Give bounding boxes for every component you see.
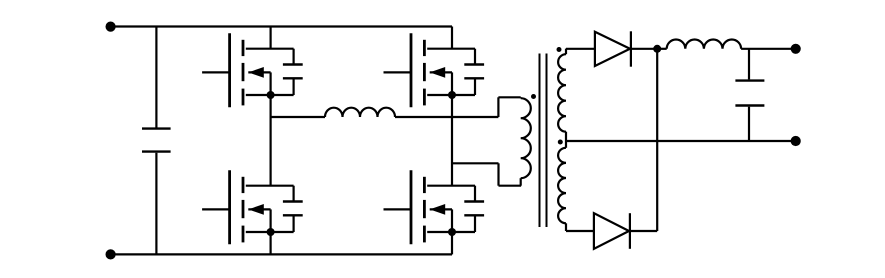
output terminal (+) [791, 44, 801, 54]
polarity dot (primary) [531, 94, 536, 99]
diode D1 (top rectifier) [595, 31, 631, 66]
capacitor C6 (output filter) [735, 49, 764, 141]
n-channel MOSFET Q2 (high-side right) [384, 33, 476, 107]
n-channel MOSFET Q1 (high-side left) [202, 33, 294, 107]
wire: L1 to transformer primary top [395, 116, 498, 118]
wire: L2 to output terminal [741, 48, 796, 50]
polarity dot (secondary bottom half) [558, 140, 563, 145]
wire: left leg midpoint column (Q1 source to Q3 drain) [270, 95, 272, 186]
wire: secondary bottom lead to D2 [566, 230, 594, 232]
wire: right bridge midpoint to primary bottom [452, 162, 499, 164]
wire: drain riser of n-channel MOSFET Q4 (low-side right) [451, 232, 453, 254]
node A: left bridge midpoint to resonant inductor [271, 116, 325, 118]
n-channel MOSFET Q4 (low-side right) [384, 170, 476, 244]
transformer T1 primary winding [521, 97, 531, 185]
output terminal (-) [791, 136, 801, 146]
wire: primary bottom lead [499, 163, 522, 185]
capacitor C2 (across n-channel MOSFET Q1 (high-side left)) [283, 49, 303, 95]
wire: bottom input rail [111, 253, 452, 255]
capacitor C3 (across n-channel MOSFET Q2 (high-side right)) [464, 49, 484, 95]
wire: D2 cathode to riser [630, 230, 657, 232]
input terminal (+) top-left [106, 22, 116, 32]
wire: D1 cathode to output node [631, 48, 657, 50]
wire: right leg midpoint column (Q2 source to Q4 drain) [451, 95, 453, 186]
node B: rectified output junction [653, 45, 661, 53]
inductor L1 (resonant) [325, 108, 395, 117]
capacitor C5 (across n-channel MOSFET Q4 (low-side right)) [464, 186, 484, 232]
wire: D2 cathode riser to output node (crosses center-tap wire) [656, 49, 658, 231]
wire: output node to filter inductor [657, 48, 667, 50]
wire: drain riser of n-channel MOSFET Q3 (low-side left) [270, 232, 272, 254]
transformer T1 secondary winding (center-tapped) [558, 49, 566, 231]
inductor L2 (output filter) [667, 40, 741, 49]
wire: drain riser of n-channel MOSFET Q2 (high-side right) [451, 27, 453, 49]
wire: top input rail [111, 25, 452, 27]
wire: secondary top lead to D1 [566, 48, 595, 50]
polarity dot (secondary top) [557, 47, 562, 52]
capacitor C4 (across n-channel MOSFET Q3 (low-side left)) [283, 186, 303, 232]
wire: drain riser of n-channel MOSFET Q1 (high-side left) [270, 27, 272, 49]
diode D2 (bottom rectifier) [594, 213, 630, 249]
transformer T1 core [540, 54, 547, 228]
capacitor C1 (input bulk) [142, 27, 171, 255]
n-channel MOSFET Q3 (low-side left) [202, 170, 294, 244]
wire: secondary center tap to bottom output rail [566, 140, 796, 142]
input terminal (-) bottom-left [106, 249, 116, 259]
wire: primary top lead [498, 97, 520, 117]
